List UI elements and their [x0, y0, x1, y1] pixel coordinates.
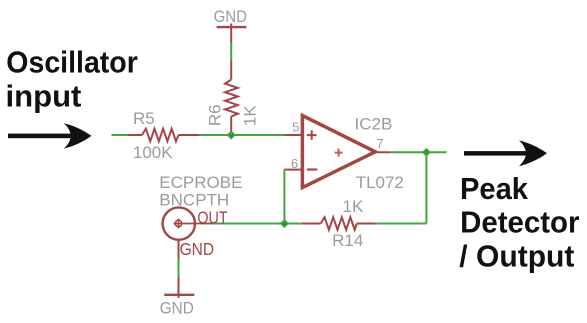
- resistor R6: [225, 61, 238, 132]
- connector ECPROBE BNCPTH: [163, 207, 213, 239]
- svg-text:/ Output: / Output: [459, 238, 574, 273]
- wire BNC to R14: [213, 223, 302, 225]
- svg-text:5: 5: [292, 120, 299, 135]
- svg-text:Peak: Peak: [460, 171, 529, 206]
- op-amp IC2B: [302, 116, 375, 188]
- label Oscillator input: [6, 45, 138, 114]
- svg-text:IC2B: IC2B: [355, 115, 393, 134]
- svg-text:1K: 1K: [343, 197, 364, 216]
- svg-text:Detector: Detector: [460, 205, 579, 240]
- svg-text:GND: GND: [180, 239, 215, 259]
- wire pin 6 down to feedback: [283, 170, 285, 224]
- svg-text:ECPROBE: ECPROBE: [159, 173, 242, 192]
- pin 7 stub: [374, 151, 391, 153]
- BNC ground pin stub: [178, 240, 180, 259]
- wire input left segment: [112, 134, 128, 136]
- svg-text:100K: 100K: [133, 143, 173, 162]
- svg-text:TL072: TL072: [356, 173, 404, 192]
- junction input node: [228, 132, 235, 139]
- junction output node: [423, 149, 430, 156]
- wire BNC to GND: [178, 259, 180, 278]
- svg-text:7: 7: [376, 136, 383, 151]
- pin 5 stub: [284, 134, 302, 136]
- junction feedback node: [281, 220, 288, 227]
- wire R6 to junction: [230, 132, 232, 135]
- resistor R5: [128, 129, 200, 142]
- svg-text:R14: R14: [332, 231, 363, 250]
- svg-text:1K: 1K: [241, 105, 260, 126]
- svg-text:OUT: OUT: [197, 207, 227, 227]
- svg-text:input: input: [6, 79, 82, 114]
- ground GND bottom: [164, 277, 194, 298]
- svg-text:R5: R5: [133, 109, 155, 128]
- wire output junction down: [425, 152, 427, 223]
- wire GND to R6: [230, 43, 232, 62]
- svg-text:R6: R6: [205, 104, 224, 126]
- svg-text:GND: GND: [214, 7, 247, 26]
- wire R5 to op-amp pin 5: [199, 134, 285, 136]
- resistor R14: [302, 217, 376, 230]
- pin 6 stub: [284, 169, 302, 171]
- label Peak Detector / Output: [459, 171, 579, 274]
- ground GND top: [217, 24, 247, 44]
- wire pin 7 to output: [391, 151, 447, 153]
- svg-text:6: 6: [291, 156, 298, 171]
- svg-text:Oscillator: Oscillator: [6, 45, 138, 80]
- wire feedback bottom right: [376, 223, 427, 225]
- input arrow: [8, 123, 92, 148]
- svg-text:GND: GND: [160, 298, 194, 317]
- output arrow: [464, 140, 547, 166]
